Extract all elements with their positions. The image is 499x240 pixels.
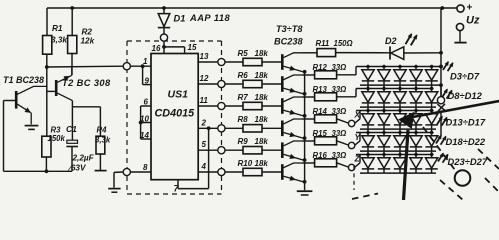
wire T3 collector to R11 — [302, 52, 317, 54]
svg-text:+: + — [467, 3, 473, 14]
svg-text:18k: 18k — [255, 115, 269, 124]
wire node Z to LED row — [355, 155, 360, 168]
svg-text:18k: 18k — [255, 49, 269, 58]
LED group D23-D27 — [356, 153, 438, 173]
resistor R13 — [313, 85, 347, 101]
svg-text:14: 14 — [140, 131, 149, 140]
annotation dashed line 1 — [423, 127, 455, 170]
wire R14 to node X — [337, 119, 349, 123]
transistor T4 — [281, 75, 303, 94]
svg-text:R16: R16 — [313, 151, 328, 160]
ground T1 emitter — [25, 126, 39, 130]
transistor T8 — [281, 163, 303, 182]
svg-text:18k: 18k — [255, 71, 269, 80]
wire rail lower — [440, 111, 442, 135]
wire node to R6 — [225, 83, 243, 85]
annotation arrowhead — [399, 112, 415, 129]
svg-text:9: 9 — [145, 77, 150, 86]
node D1 to pin16 — [160, 34, 167, 41]
wire node to R8 — [225, 127, 243, 129]
svg-text:R11: R11 — [316, 39, 330, 48]
wire pin 11 output — [198, 96, 218, 106]
svg-text:2: 2 — [201, 118, 207, 127]
svg-text:T1 BC238: T1 BC238 — [3, 75, 44, 85]
resistor R14 — [313, 107, 347, 123]
wire pin 13 output — [198, 52, 218, 62]
wire node to R5 — [225, 61, 243, 63]
node output 5 — [218, 147, 225, 154]
svg-text:3,3k: 3,3k — [95, 136, 111, 145]
svg-text:AAP 118: AAP 118 — [189, 13, 231, 23]
wire R13 to LED row — [337, 89, 356, 97]
node pin 8 input — [123, 168, 130, 175]
wire node to R9 — [225, 149, 243, 151]
svg-text:13: 13 — [200, 52, 209, 61]
svg-text:33Ω: 33Ω — [332, 151, 347, 160]
svg-text:18k: 18k — [255, 93, 269, 102]
node Y — [348, 132, 361, 149]
transistor T1 — [3, 75, 47, 124]
IC US1 CD4015 — [151, 54, 198, 180]
svg-text:R2: R2 — [82, 28, 93, 37]
wire bottom timing rail — [4, 169, 73, 173]
wire pin 9 bracket — [143, 66, 151, 85]
wire Z dashed stub — [353, 166, 355, 190]
junction cross mark — [437, 104, 445, 112]
node output 4 — [218, 168, 225, 175]
svg-text:D2: D2 — [385, 36, 397, 46]
wire node to R7 — [225, 105, 243, 107]
label LED group D18-D22 — [436, 135, 486, 147]
resistor R8 — [238, 115, 269, 132]
wire right supply rail — [439, 8, 443, 97]
diode D2 LED — [385, 36, 404, 60]
annotation dashed line 5 — [352, 194, 378, 200]
wire T8 collector to R16 — [302, 162, 315, 164]
wire pin16 pin15 feed — [162, 41, 185, 53]
svg-text:150Ω: 150Ω — [334, 39, 353, 48]
svg-text:D8÷D12: D8÷D12 — [448, 90, 483, 101]
node Z — [348, 154, 360, 171]
svg-text:1: 1 — [143, 57, 148, 66]
svg-text:2,2µF: 2,2µF — [72, 154, 95, 163]
svg-text:T2 BC 308: T2 BC 308 — [62, 78, 111, 88]
wire pin 8 — [130, 163, 151, 172]
pin 16 label — [152, 44, 161, 53]
LED arrows D2 — [406, 34, 417, 45]
resistor R10 — [238, 159, 269, 176]
label Uz — [466, 15, 480, 27]
svg-text:CD4015: CD4015 — [155, 108, 196, 120]
wire R4 bottom — [99, 154, 101, 170]
label LED group D8-D12 — [442, 89, 483, 101]
svg-text:12: 12 — [200, 74, 209, 83]
wire R12 to LED row — [337, 67, 356, 75]
svg-text:33Ω: 33Ω — [332, 107, 347, 116]
svg-text:D3÷D7: D3÷D7 — [450, 71, 480, 82]
svg-text:8: 8 — [143, 163, 148, 172]
svg-text:R12: R12 — [313, 63, 328, 72]
resistor R5 — [238, 49, 269, 66]
svg-text:US1: US1 — [168, 89, 189, 101]
svg-text:R6: R6 — [238, 71, 249, 80]
label LED group D13-D17 — [437, 116, 486, 127]
LED group D18-D22 — [356, 131, 438, 155]
label LED group D23-D27 — [438, 153, 488, 167]
node output 13 — [218, 58, 225, 65]
ground R4 — [95, 170, 107, 172]
wire emitter ground bus — [303, 70, 307, 190]
wire R16 to node Z — [337, 163, 349, 167]
node output 2 — [218, 125, 225, 132]
svg-text:D1: D1 — [174, 14, 186, 24]
transistor T7 — [281, 141, 303, 160]
transistor T3 — [281, 53, 303, 72]
wire C1 bottom — [71, 147, 73, 172]
svg-text:12k: 12k — [81, 37, 95, 46]
node clock input — [123, 63, 130, 70]
svg-text:BC238: BC238 — [274, 37, 303, 47]
svg-text:R15: R15 — [313, 129, 328, 138]
wire R2 bottom to T2 emitter — [71, 54, 73, 76]
resistor R2 — [68, 28, 95, 54]
wire R3 bottom — [45, 157, 47, 171]
wire T5 collector to R13 — [302, 96, 315, 98]
svg-text:D13÷D17: D13÷D17 — [446, 117, 486, 128]
transistor T2 — [47, 67, 111, 100]
wire node Y to LED row — [355, 133, 360, 146]
annotation dashed line 3 — [478, 149, 499, 169]
svg-text:D18÷D22: D18÷D22 — [446, 136, 486, 147]
wire R10 to T8 base — [262, 171, 281, 173]
svg-text:⁄63V: ⁄63V — [68, 164, 87, 173]
wire R6 to T4 base — [262, 83, 281, 85]
node rail connector — [437, 97, 444, 104]
capacitor C1 — [66, 124, 95, 173]
annotation ring — [455, 170, 471, 186]
wire pin 1 — [130, 57, 151, 68]
diode D1 — [158, 8, 231, 34]
wire node rail to pin1 — [47, 65, 123, 68]
resistor R4 — [95, 126, 111, 155]
resistor R1 — [43, 24, 68, 54]
svg-text:150k: 150k — [48, 134, 66, 143]
wire T4 collector to R12 — [302, 74, 315, 76]
resistor R11 — [316, 39, 353, 57]
svg-text:R13: R13 — [313, 85, 328, 94]
svg-text:3,3k: 3,3k — [51, 36, 67, 45]
resistor R9 — [238, 137, 269, 154]
transistor T6 — [281, 119, 303, 138]
wire pins 6 10 14 bracket — [139, 98, 151, 141]
resistor R12 — [313, 63, 347, 79]
svg-text:11: 11 — [200, 96, 209, 105]
svg-text:33Ω: 33Ω — [332, 129, 347, 138]
resistor R7 — [238, 93, 269, 110]
svg-text:R5: R5 — [238, 49, 249, 58]
svg-text:33Ω: 33Ω — [332, 85, 347, 94]
svg-text:10: 10 — [140, 115, 149, 124]
ground pin8 — [108, 189, 120, 193]
wire T2 collector node — [72, 101, 100, 141]
LED group D8-D12 — [356, 87, 438, 111]
node X — [348, 110, 360, 127]
wire R8 to T6 base — [262, 127, 281, 129]
wire pin 2 output — [198, 118, 218, 128]
annotation dashed line 4 — [485, 178, 499, 192]
svg-text:R8: R8 — [238, 115, 249, 124]
svg-text:33Ω: 33Ω — [332, 63, 347, 72]
annotation dashed line 2 — [440, 180, 463, 200]
svg-text:R10: R10 — [238, 159, 253, 168]
resistor R15 — [313, 129, 347, 145]
wire R9 to T7 base — [262, 149, 281, 151]
terminal Uz plus — [457, 3, 473, 14]
svg-text:T3÷T8: T3÷T8 — [276, 24, 303, 34]
svg-text:R4: R4 — [97, 126, 108, 135]
LED group D3-D7 — [356, 65, 443, 97]
wire R11 to D2 — [336, 52, 390, 54]
wire R7 to T5 base — [262, 105, 281, 107]
dashed module boundary — [127, 41, 222, 194]
wire D2 to rail — [404, 51, 443, 55]
wire R1 bottom vertical node — [45, 54, 49, 136]
resistor R6 — [238, 71, 269, 88]
svg-text:4: 4 — [201, 162, 207, 171]
wire T7 collector to R15 — [302, 140, 315, 142]
wire R2 top — [71, 8, 73, 36]
wire R5 to T3 base — [262, 61, 281, 63]
pin 15 label — [188, 43, 197, 52]
annotation arrow shaft — [404, 101, 499, 200]
svg-text:16: 16 — [152, 44, 161, 53]
label LED group D3-D7 — [443, 62, 480, 82]
wire R15 to node Y — [337, 141, 349, 145]
transistor T5 — [281, 97, 303, 116]
wire R1 top — [46, 8, 48, 36]
wire pin 5 output — [198, 140, 218, 150]
wire top supply rail — [47, 6, 457, 10]
node output 12 — [218, 80, 225, 87]
node output 11 — [218, 102, 225, 109]
wire pin8 ground link — [114, 172, 123, 188]
svg-text:6: 6 — [144, 98, 149, 107]
label T3-T8 — [274, 24, 303, 47]
wire T6 collector to R14 — [302, 118, 315, 120]
svg-text:R7: R7 — [238, 93, 249, 102]
svg-text:15: 15 — [188, 43, 197, 52]
svg-text:5: 5 — [202, 140, 207, 149]
wire node to R10 — [225, 171, 243, 173]
wire pin 12 output — [198, 74, 218, 84]
terminal Uz minus — [454, 23, 466, 42]
svg-text:R14: R14 — [313, 107, 328, 116]
resistor R16 — [313, 151, 347, 167]
wire node X to LED row — [355, 111, 360, 124]
resistor R3 — [42, 126, 66, 158]
svg-text:R1: R1 — [52, 24, 63, 33]
svg-text:Uz: Uz — [466, 15, 480, 27]
wire T1 base left vertical — [3, 101, 5, 172]
svg-text:R9: R9 — [238, 137, 249, 146]
LED group D13-D17 — [356, 109, 438, 133]
svg-text:18k: 18k — [255, 159, 269, 168]
ground emitter bus — [297, 191, 313, 195]
svg-text:C1: C1 — [66, 124, 77, 134]
wire pin 7 to pin 2 — [174, 126, 211, 193]
svg-text:18k: 18k — [255, 137, 269, 146]
wire pin 4 output — [198, 162, 218, 172]
svg-text:D23÷D27: D23÷D27 — [448, 156, 488, 167]
